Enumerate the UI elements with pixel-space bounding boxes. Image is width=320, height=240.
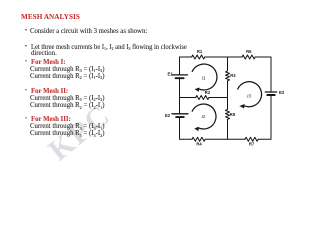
bullet 1 <box>25 28 27 35</box>
svg-text:I2: I2 <box>201 114 205 119</box>
For Mesh I <box>25 59 27 66</box>
resistor R1 <box>192 55 205 59</box>
circuit schematic <box>0 0 320 180</box>
resistor R7 <box>245 137 258 141</box>
wire top-right segment <box>255 57 271 92</box>
resistor R2 <box>196 96 209 100</box>
battery E3 <box>265 92 276 95</box>
svg-text:R1: R1 <box>197 49 203 54</box>
wire R2 branch right <box>209 97 228 99</box>
For Mesh II <box>25 88 27 95</box>
resistor R3 <box>226 71 230 81</box>
title <box>21 14 80 21</box>
resistor R5 <box>226 109 230 119</box>
wire middle branch bottom <box>227 119 229 139</box>
watermark <box>21 80 139 187</box>
wire bottom-middle segment <box>205 138 245 140</box>
svg-text:I1: I1 <box>202 75 206 80</box>
svg-text:R5: R5 <box>230 112 236 117</box>
svg-text:R2: R2 <box>205 90 211 95</box>
wire top-middle segment <box>205 56 242 58</box>
svg-text:E3: E3 <box>279 90 285 95</box>
bullet 2 line 2 <box>31 50 57 57</box>
svg-text:R6: R6 <box>246 49 252 54</box>
wire left-middle segment <box>179 78 181 114</box>
mesh current loop I1 <box>192 64 217 91</box>
svg-text:R4: R4 <box>196 142 202 147</box>
svg-text:E1: E1 <box>168 71 174 76</box>
wire left-bottom segment <box>180 117 193 139</box>
resistor R6 <box>242 55 255 59</box>
wire top-left segment <box>180 57 192 75</box>
svg-text:R3: R3 <box>230 73 236 78</box>
wire bottom-right segment <box>258 95 271 139</box>
battery E2 <box>172 114 188 117</box>
mesh current loop I2 <box>192 104 216 131</box>
resistor R4 <box>192 137 205 141</box>
mesh current loop I3 <box>238 82 262 108</box>
wire R2 branch left <box>180 97 196 99</box>
svg-text:I3: I3 <box>247 94 251 99</box>
svg-text:R7: R7 <box>249 142 255 147</box>
wire middle branch mid <box>227 81 229 109</box>
svg-text:E2: E2 <box>165 113 171 118</box>
For Mesh III <box>25 116 27 123</box>
bullet 2 line 1 <box>25 44 27 51</box>
battery E1 <box>172 75 188 78</box>
wire middle branch top <box>227 57 229 71</box>
